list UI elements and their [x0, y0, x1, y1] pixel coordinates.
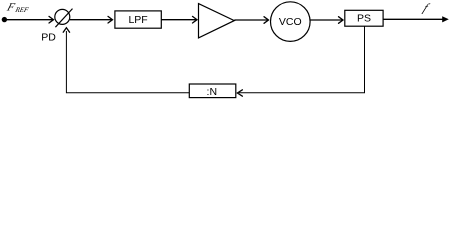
- svg-text:PS: PS: [357, 13, 371, 25]
- svg-text::N: :N: [207, 86, 218, 98]
- svg-text:PD: PD: [41, 32, 56, 44]
- svg-text:REF: REF: [14, 6, 30, 14]
- svg-text:LPF: LPF: [128, 14, 147, 26]
- svg-text:VCO: VCO: [279, 16, 302, 28]
